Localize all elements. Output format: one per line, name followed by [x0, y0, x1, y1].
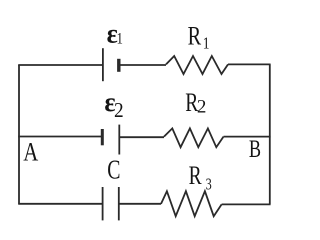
- resistor R2 zigzag: [164, 128, 224, 147]
- wire middle branch right segment: [224, 136, 271, 138]
- wire top branch right segment: [228, 63, 271, 65]
- wire left vertical rail (node A): [18, 65, 20, 204]
- svg-text:R: R: [189, 162, 203, 190]
- wire bottom branch left segment: [18, 203, 102, 205]
- resistor R1 zigzag: [166, 56, 228, 74]
- label R1: [188, 22, 210, 53]
- capacitor C left plate: [102, 187, 104, 220]
- svg-text:3: 3: [206, 176, 212, 194]
- wire middle branch left segment: [18, 136, 101, 138]
- svg-text:1: 1: [203, 34, 210, 53]
- svg-text:R: R: [188, 22, 202, 51]
- battery E2 negative plate (short): [101, 129, 104, 145]
- wire top branch left segment: [18, 64, 102, 66]
- svg-text:B: B: [249, 135, 261, 162]
- battery E1 negative plate (short): [117, 59, 120, 72]
- svg-text:A: A: [23, 138, 38, 167]
- battery E1 positive plate (long): [102, 48, 104, 81]
- battery E2 positive plate (long): [118, 125, 120, 155]
- label epsilon1: [107, 18, 123, 49]
- capacitor C right plate: [118, 187, 120, 220]
- resistor R3 zigzag: [161, 191, 222, 216]
- wire bottom branch right segment: [222, 203, 271, 205]
- label R3: [189, 162, 212, 195]
- wire top branch middle segment: [120, 64, 166, 66]
- svg-text:C: C: [107, 155, 120, 185]
- wire right vertical rail (node B): [269, 65, 271, 204]
- svg-text:2: 2: [197, 97, 207, 118]
- svg-text:1: 1: [117, 30, 123, 48]
- label epsilon2: [104, 87, 123, 122]
- label R2: [185, 89, 206, 118]
- svg-text:2: 2: [114, 99, 124, 122]
- wire middle branch middle segment: [119, 136, 164, 138]
- wire bottom branch middle segment: [119, 203, 161, 205]
